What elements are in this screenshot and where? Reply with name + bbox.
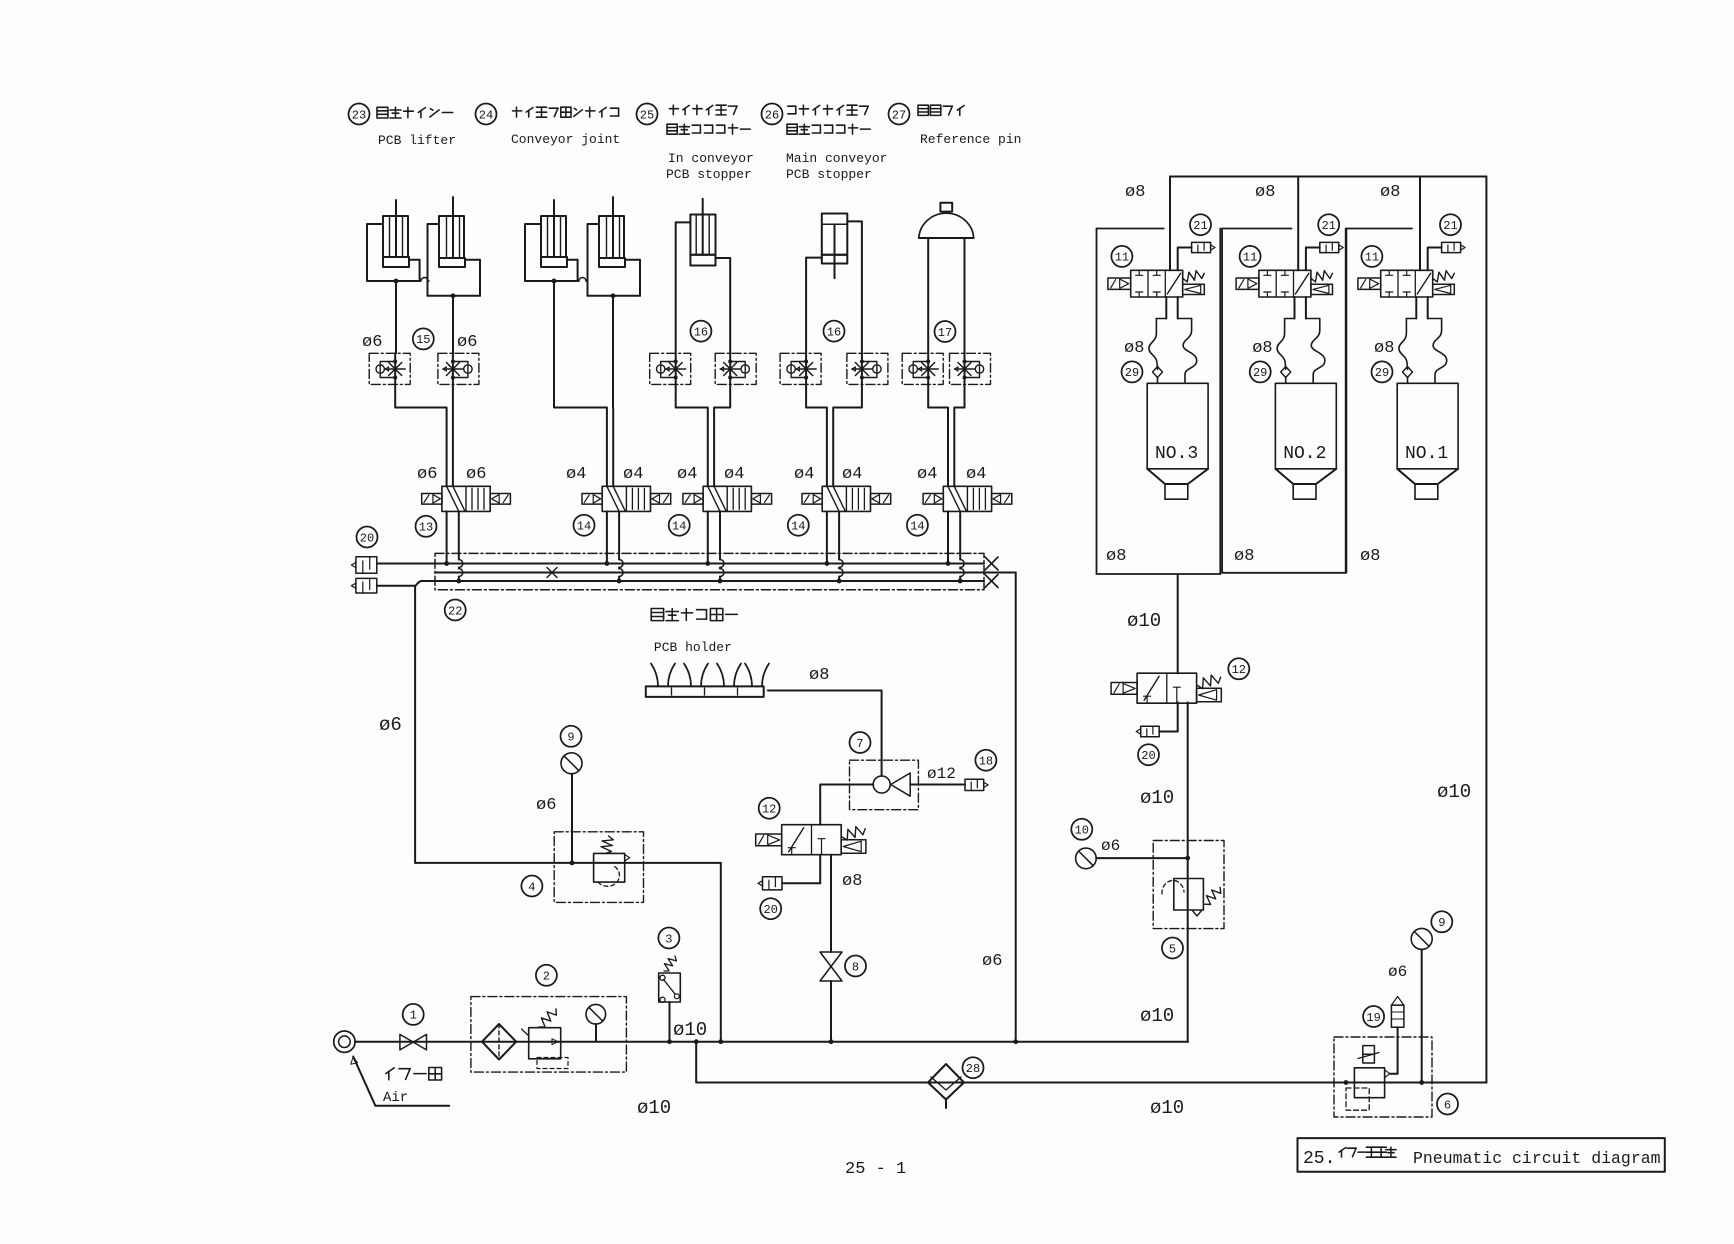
svg-text:24: 24 — [479, 108, 493, 122]
svg-text:ø4: ø4 — [724, 465, 744, 484]
svg-text:14: 14 — [791, 520, 805, 534]
svg-text:ø6: ø6 — [362, 333, 382, 352]
svg-text:20: 20 — [763, 903, 777, 917]
svg-text:NO.3: NO.3 — [1155, 444, 1198, 464]
svg-text:21: 21 — [1321, 219, 1335, 233]
svg-text:11: 11 — [1115, 251, 1129, 265]
svg-text:ø4: ø4 — [917, 465, 937, 484]
svg-text:28: 28 — [966, 1062, 980, 1076]
svg-text:ø8: ø8 — [1374, 339, 1394, 358]
svg-text:Pneumatic circuit diagram: Pneumatic circuit diagram — [1413, 1149, 1661, 1168]
svg-text:ø6: ø6 — [1101, 837, 1120, 855]
svg-text:Main conveyor: Main conveyor — [786, 151, 887, 166]
svg-text:ø8: ø8 — [1255, 183, 1275, 202]
svg-text:20: 20 — [360, 531, 374, 545]
svg-text:6: 6 — [1444, 1098, 1451, 1112]
svg-text:5: 5 — [1169, 942, 1176, 956]
svg-text:9: 9 — [567, 731, 574, 745]
svg-text:17: 17 — [938, 326, 952, 340]
svg-text:ø4: ø4 — [794, 465, 814, 484]
svg-text:ø8: ø8 — [1360, 547, 1380, 566]
svg-text:ø10: ø10 — [673, 1019, 707, 1041]
svg-text:21: 21 — [1193, 219, 1207, 233]
svg-text:14: 14 — [672, 520, 686, 534]
svg-text:27: 27 — [892, 108, 906, 122]
svg-text:ø10: ø10 — [1437, 781, 1471, 803]
svg-text:29: 29 — [1375, 366, 1389, 380]
svg-text:ø10: ø10 — [1150, 1097, 1184, 1119]
svg-text:PCB stopper: PCB stopper — [786, 167, 872, 182]
svg-text:ø8: ø8 — [1234, 547, 1254, 566]
svg-text:ø10: ø10 — [1127, 610, 1161, 632]
svg-text:NO.1: NO.1 — [1405, 444, 1448, 464]
svg-text:29: 29 — [1125, 366, 1139, 380]
svg-text:4: 4 — [528, 880, 535, 894]
svg-text:8: 8 — [852, 960, 859, 974]
svg-text:ø4: ø4 — [677, 465, 697, 484]
svg-text:ø4: ø4 — [566, 465, 586, 484]
svg-text:PCB stopper: PCB stopper — [666, 167, 752, 182]
svg-text:In conveyor: In conveyor — [668, 151, 754, 166]
svg-text:ø6: ø6 — [536, 796, 556, 815]
svg-text:ø6: ø6 — [982, 952, 1002, 971]
svg-text:ø6: ø6 — [457, 333, 477, 352]
svg-text:Reference pin: Reference pin — [920, 132, 1021, 147]
svg-text:25 - 1: 25 - 1 — [845, 1160, 906, 1179]
svg-text:21: 21 — [1443, 219, 1457, 233]
svg-text:11: 11 — [1365, 251, 1379, 265]
svg-text:14: 14 — [577, 520, 591, 534]
svg-text:25.: 25. — [1303, 1149, 1335, 1169]
svg-text:10: 10 — [1075, 824, 1089, 838]
svg-text:ø6: ø6 — [1388, 963, 1407, 981]
svg-text:ø8: ø8 — [1125, 183, 1145, 202]
svg-text:Air: Air — [383, 1090, 408, 1106]
svg-text:Conveyor joint: Conveyor joint — [511, 132, 620, 147]
svg-text:3: 3 — [665, 932, 672, 946]
svg-text:23: 23 — [352, 108, 366, 122]
svg-text:ø4: ø4 — [966, 465, 986, 484]
svg-text:20: 20 — [1141, 749, 1155, 763]
svg-text:ø8: ø8 — [1252, 339, 1272, 358]
svg-text:ø6: ø6 — [417, 465, 437, 484]
svg-text:7: 7 — [856, 737, 863, 751]
svg-text:18: 18 — [979, 755, 993, 769]
svg-text:2: 2 — [543, 970, 550, 984]
svg-text:16: 16 — [694, 325, 708, 339]
svg-text:13: 13 — [419, 521, 433, 535]
svg-text:NO.2: NO.2 — [1283, 444, 1326, 464]
svg-text:16: 16 — [827, 325, 841, 339]
svg-text:ø10: ø10 — [637, 1097, 671, 1119]
svg-text:ø8: ø8 — [842, 872, 862, 891]
svg-text:1: 1 — [410, 1009, 417, 1023]
svg-text:14: 14 — [910, 520, 924, 534]
svg-text:12: 12 — [1232, 663, 1246, 677]
svg-text:ø6: ø6 — [466, 465, 486, 484]
svg-text:25: 25 — [640, 108, 654, 122]
svg-text:ø8: ø8 — [1106, 547, 1126, 566]
svg-text:12: 12 — [762, 803, 776, 817]
svg-text:ø10: ø10 — [1140, 1005, 1174, 1027]
svg-text:PCB holder: PCB holder — [654, 640, 732, 655]
svg-text:PCB lifter: PCB lifter — [378, 133, 456, 148]
svg-text:ø12: ø12 — [927, 765, 956, 783]
svg-text:ø8: ø8 — [809, 666, 829, 685]
svg-text:15: 15 — [416, 333, 430, 347]
svg-text:ø10: ø10 — [1140, 787, 1174, 809]
svg-text:19: 19 — [1366, 1011, 1380, 1025]
svg-text:ø8: ø8 — [1124, 339, 1144, 358]
svg-text:ø6: ø6 — [379, 714, 402, 736]
svg-text:26: 26 — [765, 108, 779, 122]
svg-text:9: 9 — [1438, 916, 1445, 930]
svg-text:22: 22 — [448, 604, 462, 618]
svg-text:11: 11 — [1243, 251, 1257, 265]
svg-text:ø4: ø4 — [623, 465, 643, 484]
svg-text:ø4: ø4 — [842, 465, 862, 484]
svg-text:29: 29 — [1253, 366, 1267, 380]
svg-text:ø8: ø8 — [1380, 183, 1400, 202]
